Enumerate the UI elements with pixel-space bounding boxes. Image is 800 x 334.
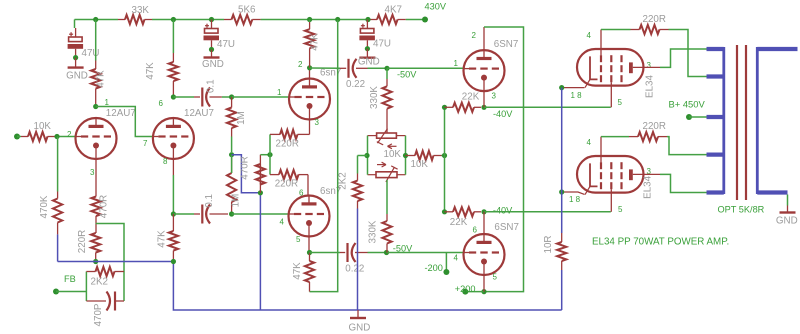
trimmer 10K lower bbox=[376, 172, 397, 178]
svg-text:22K: 22K bbox=[450, 217, 468, 228]
capacitor C2 47U bbox=[211, 20, 213, 29]
triode V3a 6sn7 top bbox=[289, 79, 330, 120]
wire FB bbox=[56, 291, 86, 293]
svg-text:-200: -200 bbox=[425, 263, 443, 273]
node rail-C3 bbox=[365, 17, 370, 22]
resistor 47K plate load lower bbox=[309, 282, 311, 292]
node 220R-gndbus bbox=[93, 259, 98, 264]
svg-text:12AU7: 12AU7 bbox=[184, 108, 214, 119]
svg-text:B+ 450V: B+ 450V bbox=[669, 98, 706, 109]
pentode V5 EL34 upper bbox=[577, 49, 644, 86]
wire rail drop to C1 bbox=[74, 20, 76, 29]
wire trimmer right leg bbox=[396, 135, 405, 137]
wire cathode lead 6SN7 lower bbox=[483, 212, 485, 234]
svg-text:5: 5 bbox=[493, 273, 498, 282]
svg-text:2: 2 bbox=[472, 31, 477, 40]
node C2-GND bbox=[209, 47, 214, 52]
wire drive upper EL34 grid bbox=[484, 106, 611, 108]
svg-text:47K: 47K bbox=[310, 33, 321, 51]
node trimmer left bbox=[364, 153, 369, 158]
wire node B up bbox=[269, 134, 271, 154]
ground GND speaker bbox=[787, 195, 789, 206]
svg-text:8: 8 bbox=[163, 157, 168, 166]
svg-text:2K2: 2K2 bbox=[338, 172, 349, 189]
capacitor C6 0.22 bbox=[346, 243, 348, 262]
wire V2 cathode lead bbox=[172, 159, 174, 175]
svg-text:3: 3 bbox=[492, 91, 497, 100]
svg-text:0.1: 0.1 bbox=[206, 79, 217, 93]
node C4-1M bbox=[229, 211, 234, 216]
resistor 4K7 bbox=[369, 19, 377, 21]
wire input bbox=[17, 136, 21, 138]
svg-text:1: 1 bbox=[105, 98, 110, 107]
resistor 10K bias bbox=[406, 155, 416, 157]
wire B+ to center tap bbox=[689, 116, 707, 118]
resistor 470R second bbox=[259, 164, 261, 193]
ground GND2 bbox=[211, 50, 213, 58]
node 22K upper left bbox=[442, 105, 447, 110]
transformer core bbox=[736, 45, 738, 200]
wire -50V to grid 6SN7 lower bbox=[387, 252, 464, 254]
svg-text:+200: +200 bbox=[455, 284, 476, 294]
wire plate lead 6SN7 lower bbox=[483, 275, 485, 292]
svg-text:470R: 470R bbox=[99, 195, 110, 218]
resistor 330K lower bbox=[386, 214, 388, 221]
svg-text:EL34: EL34 bbox=[642, 175, 653, 198]
node +200 terminal bbox=[462, 289, 468, 295]
wire to C4 bbox=[173, 213, 194, 215]
wire -200 stub bbox=[445, 253, 447, 273]
transformer OPT secondary bbox=[756, 47, 759, 194]
node C7-GND bbox=[365, 46, 370, 51]
node cathode bus upper bbox=[559, 85, 564, 90]
wire 2K2 bias top bbox=[357, 156, 359, 174]
wire feedback tap bbox=[96, 224, 124, 302]
node plate V2 pin6 bbox=[171, 94, 176, 99]
resistor 47K plate V1 bbox=[95, 61, 97, 70]
wire node A to gnd (blue) bbox=[232, 155, 261, 193]
svg-text:220R: 220R bbox=[276, 139, 299, 150]
pentode V6 EL34 lower bbox=[577, 156, 644, 193]
wire rail to 47K bbox=[95, 20, 97, 61]
svg-text:47U: 47U bbox=[217, 39, 235, 50]
node 470R2 bottom bbox=[258, 190, 263, 195]
resistor 22K upper bbox=[445, 106, 454, 108]
wire 6sn7 top cathode lead bbox=[309, 120, 311, 135]
resistor 220R g2 upper bbox=[601, 29, 631, 31]
wire g1 lead EL34 lower bbox=[610, 193, 612, 212]
trimmer 10K upper bbox=[377, 133, 397, 138]
resistor 47K plate V2 bbox=[172, 53, 174, 62]
wire trimmer to 330K lower bbox=[386, 180, 388, 214]
wire rail to 47K V2 bbox=[172, 20, 174, 54]
transformer OPT primary bbox=[722, 47, 725, 194]
capacitor C3 0.1 bbox=[201, 88, 203, 107]
svg-text:6SN7: 6SN7 bbox=[494, 39, 519, 50]
node plate V1 pin1 bbox=[93, 104, 98, 109]
wire to grid 6sn7 top bbox=[232, 96, 289, 98]
svg-text:3: 3 bbox=[90, 168, 95, 177]
node 430V terminal bbox=[422, 17, 428, 23]
svg-text:4: 4 bbox=[587, 138, 592, 147]
resistor 470R cathode V1 bbox=[91, 197, 100, 217]
svg-text:-40V: -40V bbox=[493, 109, 513, 119]
node rail-47K5 bbox=[335, 17, 340, 22]
svg-text:330K: 330K bbox=[368, 220, 379, 243]
resistor 220R cathode 6sn7 top bbox=[270, 133, 280, 135]
wire V1 cathode lead bbox=[95, 159, 97, 197]
wire g2 to UL tap upper bbox=[669, 30, 707, 77]
svg-text:10R: 10R bbox=[543, 236, 554, 254]
triode V1 12AU7 (first half) bbox=[76, 118, 117, 159]
node rail-C2 bbox=[209, 17, 214, 22]
svg-text:2: 2 bbox=[298, 60, 303, 69]
wire V1 plate to V2 grid bbox=[96, 107, 153, 137]
svg-text:6: 6 bbox=[473, 225, 478, 234]
resistor 47K plate 6sn7 bbox=[309, 22, 311, 29]
node -200 terminal bbox=[443, 269, 449, 275]
wire cathode lead 6SN7 upper bbox=[483, 91, 485, 107]
wire plate lead 6SN7 upper bbox=[483, 27, 485, 50]
svg-text:2K2: 2K2 bbox=[91, 277, 108, 288]
node plate 6sn7 top bbox=[307, 65, 312, 70]
svg-text:GND: GND bbox=[349, 323, 371, 334]
svg-text:GND: GND bbox=[358, 57, 380, 68]
wire 6sn7 bottom plate lead bbox=[308, 237, 310, 253]
node FB terminal bbox=[53, 289, 59, 295]
svg-text:330K: 330K bbox=[369, 86, 380, 109]
svg-text:1 8: 1 8 bbox=[569, 195, 581, 204]
resistor 220R g2 lower bbox=[601, 136, 629, 138]
node cathode V2 bbox=[171, 211, 176, 216]
svg-text:3: 3 bbox=[315, 118, 320, 127]
svg-text:47K: 47K bbox=[292, 262, 303, 280]
svg-text:4: 4 bbox=[280, 217, 285, 226]
node B bbox=[267, 152, 272, 157]
svg-text:47K: 47K bbox=[157, 230, 168, 248]
svg-text:470P: 470P bbox=[93, 303, 104, 326]
capacitor C5 0.22 bbox=[347, 59, 349, 78]
svg-text:GND: GND bbox=[776, 215, 798, 226]
resistor 330K upper bbox=[386, 79, 388, 86]
svg-text:5K6: 5K6 bbox=[238, 4, 256, 15]
wire g2 to UL tap lower bbox=[667, 137, 707, 155]
svg-text:1: 1 bbox=[454, 59, 459, 68]
wire g2 lead EL34 lower bbox=[600, 137, 602, 156]
wire g1 lead EL34 upper bbox=[610, 86, 612, 108]
svg-text:3: 3 bbox=[647, 61, 652, 70]
wire +200 stub bbox=[465, 291, 484, 293]
svg-text:10K: 10K bbox=[384, 149, 402, 160]
svg-text:430V: 430V bbox=[425, 2, 447, 12]
svg-text:4: 4 bbox=[454, 254, 459, 263]
triode V4b 6SN7 lower bbox=[464, 234, 505, 275]
triode V2 12AU7 (second half) bbox=[153, 118, 194, 159]
capacitor 470P bbox=[86, 300, 106, 302]
svg-text:EL34 PP 70WAT POWER AMP.: EL34 PP 70WAT POWER AMP. bbox=[592, 236, 729, 247]
svg-text:1M: 1M bbox=[231, 194, 242, 208]
node -50V bottom bbox=[384, 250, 389, 255]
svg-text:6: 6 bbox=[299, 189, 304, 198]
wire gnd bus row (blue) bbox=[58, 261, 174, 263]
wire g2 lead EL34 upper bbox=[600, 30, 602, 50]
capacitor C7 47U bbox=[366, 20, 368, 29]
node C1-GND bbox=[73, 55, 78, 60]
svg-text:47U: 47U bbox=[82, 48, 100, 59]
svg-text:5: 5 bbox=[296, 235, 301, 244]
triode V4a 6SN7 upper bbox=[464, 50, 505, 91]
wire bias vertical bbox=[444, 107, 446, 212]
wire cathode EL34 upper bbox=[562, 87, 585, 89]
svg-text:220R: 220R bbox=[275, 179, 298, 190]
svg-text:12AU7: 12AU7 bbox=[106, 108, 136, 119]
wire 6sn7 top plate lead bbox=[309, 68, 311, 79]
wire 470R2 to node B bbox=[260, 154, 270, 156]
wire cathode EL34 lower bbox=[562, 192, 585, 194]
wire plate V2 to C3 bbox=[173, 96, 194, 98]
svg-text:OPT 5K/8R: OPT 5K/8R bbox=[718, 204, 765, 214]
node cathode 6SN7 lower bbox=[481, 209, 486, 214]
svg-text:10K: 10K bbox=[411, 159, 429, 170]
node bias mid bbox=[442, 153, 447, 158]
svg-text:7: 7 bbox=[143, 139, 148, 148]
svg-text:5: 5 bbox=[618, 205, 623, 214]
wire C4 to grid 6sn7 bottom bbox=[232, 213, 288, 215]
wire gnd bus bottom (blue) bbox=[173, 262, 561, 311]
node trimmer right bbox=[403, 153, 408, 158]
resistor 10K input bbox=[21, 136, 28, 138]
svg-text:22K: 22K bbox=[462, 92, 480, 103]
svg-text:6: 6 bbox=[159, 99, 164, 108]
node rail-47K4 bbox=[307, 17, 312, 22]
resistor 33K bbox=[118, 19, 125, 21]
svg-text:220R: 220R bbox=[643, 14, 666, 25]
node grid V1 bbox=[54, 134, 59, 139]
wire plate EL34 upper bbox=[633, 66, 660, 68]
svg-text:-40V: -40V bbox=[493, 205, 513, 215]
wire drive lower EL34 grid bbox=[484, 211, 611, 213]
wire C3 to grid node bbox=[222, 96, 232, 98]
wire plate to OPT bottom bbox=[660, 174, 707, 192]
svg-text:1M: 1M bbox=[236, 111, 247, 125]
svg-text:47K: 47K bbox=[145, 62, 156, 80]
resistor 2K2 bias bbox=[357, 174, 359, 181]
svg-text:1 8: 1 8 bbox=[571, 91, 583, 100]
resistor 220R cathode V1 bbox=[91, 233, 100, 253]
svg-text:GND: GND bbox=[66, 71, 88, 82]
wire plate EL34 lower bbox=[633, 173, 660, 175]
svg-text:6SN7: 6SN7 bbox=[494, 222, 519, 233]
svg-text:33K: 33K bbox=[132, 5, 150, 16]
resistor 1M lower bbox=[231, 158, 233, 174]
svg-text:10K: 10K bbox=[34, 121, 52, 132]
wire cathode bus (blue) bbox=[561, 88, 563, 233]
node -50V top bbox=[384, 66, 389, 71]
wire 6sn7 bottom cathode lead bbox=[307, 175, 309, 196]
svg-text:0.22: 0.22 bbox=[345, 263, 364, 274]
node 47K-gndbus bbox=[171, 259, 176, 264]
wire 470R2 to bus (blue) bbox=[259, 193, 261, 310]
svg-text:EL34: EL34 bbox=[645, 75, 656, 98]
svg-text:GND: GND bbox=[202, 59, 224, 70]
resistor 5K6 bbox=[224, 19, 232, 21]
wire: 430V B+ rail bbox=[75, 19, 119, 21]
wire 2K2 to gnd bus (blue) bbox=[357, 209, 359, 311]
svg-text:0.1: 0.1 bbox=[204, 194, 215, 208]
resistor 220R cathode 6sn7 bottom bbox=[270, 174, 279, 176]
capacitor C4 0.1 bbox=[201, 205, 203, 224]
wire -50V to 330K bbox=[386, 68, 388, 79]
svg-text:0.22: 0.22 bbox=[346, 79, 365, 90]
resistor 10R cathode bbox=[561, 233, 563, 242]
svg-text:4K7: 4K7 bbox=[385, 4, 402, 15]
svg-text:2: 2 bbox=[67, 130, 72, 139]
node plate 6sn7 bottom bbox=[307, 250, 312, 255]
svg-text:470R: 470R bbox=[239, 156, 250, 179]
svg-text:220R: 220R bbox=[77, 230, 88, 253]
wire 10R to gnd bus (blue) bbox=[561, 270, 563, 310]
resistor 1M upper bbox=[231, 97, 233, 108]
svg-text:47U: 47U bbox=[373, 39, 391, 50]
node A (1M junction) bbox=[229, 152, 234, 157]
node cathode 6SN7 upper bbox=[481, 105, 486, 110]
wire 1M to node A bbox=[231, 137, 233, 153]
svg-text:47K: 47K bbox=[96, 70, 107, 88]
resistor 22K lower bbox=[445, 211, 454, 213]
node B+ terminal bbox=[686, 114, 692, 120]
node cathode bus lower bbox=[559, 189, 564, 194]
svg-text:5: 5 bbox=[618, 98, 623, 107]
wire 470K to gnd-bus (blue) bbox=[57, 234, 59, 261]
svg-text:4: 4 bbox=[587, 31, 592, 40]
ground GND1 bbox=[75, 58, 77, 68]
svg-text:-50V: -50V bbox=[397, 69, 417, 79]
wire -50V to grid 6SN7 upper bbox=[387, 67, 464, 69]
svg-text:1: 1 bbox=[277, 88, 282, 97]
node rail-R47K2 bbox=[171, 17, 176, 22]
svg-text:-50V: -50V bbox=[393, 243, 413, 253]
wire FB left leg bbox=[85, 272, 87, 302]
node input terminal bbox=[14, 134, 20, 140]
node 22K lower left bbox=[442, 209, 447, 214]
wire plate to OPT top bbox=[660, 49, 707, 67]
ground GND3 bbox=[366, 49, 368, 58]
svg-text:FB: FB bbox=[64, 274, 76, 284]
ground GND center bbox=[357, 310, 359, 317]
triode V3b 6sn7 bottom bbox=[289, 196, 330, 237]
wire to grid V1 bbox=[55, 136, 76, 138]
resistor 47K cathode V2 bbox=[172, 214, 174, 231]
node rail-R47K1 bbox=[93, 17, 98, 22]
node plate 6SN7 lower bbox=[481, 289, 486, 294]
wire rail to 47K5 (long) bbox=[310, 20, 338, 292]
resistor 470K bbox=[57, 192, 59, 199]
resistor 2K2 feedback bbox=[86, 271, 95, 273]
wire grid node down bbox=[57, 137, 59, 192]
wire node B down bbox=[269, 155, 271, 175]
wire plate to C5 bbox=[310, 67, 340, 69]
svg-text:220R: 220R bbox=[643, 121, 666, 132]
node C3-1M bbox=[229, 94, 234, 99]
svg-text:470K: 470K bbox=[39, 195, 50, 218]
wire trimmer left leg bbox=[368, 135, 377, 137]
wire +200 plate loop bbox=[484, 27, 524, 292]
capacitor C1 47U bbox=[75, 28, 77, 37]
wire plate to C6 bbox=[310, 252, 341, 254]
